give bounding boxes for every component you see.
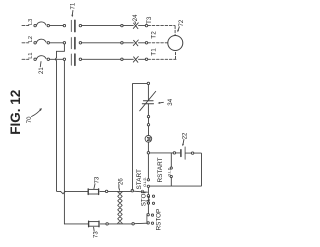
svg-text:34: 34	[167, 98, 174, 105]
wire: right control tap vertical (from L1)	[63, 61, 65, 224]
leader arrow for 72	[178, 27, 179, 31]
wire: upper rail to bus	[134, 191, 148, 192]
contactor contact 71 pole (L3)	[63, 20, 81, 31]
fuse 73a	[88, 189, 108, 195]
stop contact STOP	[147, 195, 149, 197]
contactor coil M	[145, 136, 152, 143]
leader arrow for 34	[160, 101, 164, 104]
node at battery rail junction	[147, 152, 149, 154]
svg-text:24: 24	[133, 14, 139, 21]
wire crossing jog over L1 tap	[61, 191, 66, 193]
node on upper rail	[131, 190, 133, 192]
leader arrow for 70	[32, 109, 42, 117]
node on lower rail	[132, 223, 134, 225]
wire: left control tap vertical (from L2)	[56, 61, 58, 191]
svg-text:O.L.D.: O.L.D.	[143, 177, 147, 187]
wire crossing jog over L1	[55, 58, 56, 61]
overload heater 24 (L3)	[121, 23, 148, 29]
leader arrow for 71	[71, 11, 74, 16]
wire: bus STOP to RSTOP	[147, 204, 149, 213]
circuit breaker 21 pole (L2)	[34, 39, 50, 44]
svg-text:70: 70	[27, 116, 33, 123]
fuse 73b	[89, 221, 109, 227]
svg-text:RSTART: RSTART	[157, 157, 164, 182]
wire: bus below capacitor	[147, 104, 149, 116]
terminal T2 dashed lead	[148, 42, 168, 44]
svg-text:RSTOP: RSTOP	[156, 209, 163, 231]
start contact START	[147, 179, 149, 181]
node at loop top right	[147, 82, 149, 84]
node right of battery	[191, 152, 193, 154]
leader for 24	[134, 22, 137, 24]
leader for upper 73	[94, 184, 95, 189]
wire: upper control rail	[108, 190, 131, 192]
terminal T3 dashed lead	[148, 25, 175, 27]
battery 22	[181, 147, 185, 159]
overload heater 24 (L2)	[121, 40, 148, 46]
leader for 21	[39, 62, 42, 67]
svg-text:M: M	[147, 136, 153, 141]
node at RSTART branch	[173, 152, 175, 154]
contactor contact 71 pole (L1)	[63, 54, 81, 65]
wire: bus below coil M	[147, 142, 149, 151]
svg-text:O.L.D.: O.L.D.	[167, 167, 171, 177]
motor 72	[168, 36, 183, 51]
svg-text:FIG. 12: FIG. 12	[8, 90, 23, 135]
svg-text:START: START	[136, 169, 143, 189]
remote stop contact RSTOP	[147, 214, 149, 216]
svg-text:T1: T1	[150, 48, 157, 56]
wire: lower rail to bus	[134, 222, 147, 225]
terminal T1 dashed lead	[148, 58, 176, 60]
wire to fuse 73a	[65, 190, 88, 192]
svg-text:72: 72	[179, 19, 185, 26]
svg-text:O.L.D.: O.L.D.	[147, 195, 151, 205]
wire: battery rail	[150, 152, 180, 154]
svg-text:21: 21	[39, 67, 45, 74]
wire: control loop top	[133, 82, 148, 85]
contactor contact 71 pole (L2)	[63, 38, 81, 49]
phase line L2	[22, 42, 145, 44]
svg-text:26: 26	[118, 178, 124, 185]
variable capacitor 34	[140, 91, 156, 110]
svg-text:73: 73	[95, 176, 101, 183]
wire: left control vertical (START side)	[132, 84, 134, 190]
svg-text:T3: T3	[146, 16, 153, 24]
wire: lower control rail	[108, 223, 132, 225]
svg-text:L1: L1	[28, 52, 34, 58]
svg-text:L3: L3	[28, 19, 34, 25]
svg-text:71: 71	[71, 2, 77, 9]
svg-text:L2: L2	[28, 36, 34, 42]
circuit breaker 21 pole (L1)	[34, 56, 50, 61]
wire: right side of remote loop	[150, 153, 202, 186]
phase line L1	[22, 58, 145, 60]
remote start contact RSTART	[170, 153, 172, 167]
wire: bus START to STOP	[147, 188, 149, 195]
leader arrow for 22	[182, 140, 185, 145]
wire: tap from L2 node down-step	[57, 44, 65, 58]
leader for 26	[118, 185, 121, 190]
svg-text:73: 73	[93, 231, 99, 238]
connector node pair on bus	[147, 115, 149, 117]
wire: corner to lower fuse rail	[64, 223, 88, 225]
svg-text:T2: T2	[150, 31, 157, 39]
svg-text:22: 22	[182, 132, 188, 139]
wire: bus from loop node down to capacitor 34	[147, 85, 149, 101]
overload heater 24 (L1)	[121, 57, 148, 63]
leader for lower 73	[93, 227, 96, 231]
wire from battery to right corner	[186, 152, 192, 154]
circuit breaker 21 pole (L3)	[34, 22, 50, 27]
transformer 26 winding	[118, 191, 123, 224]
wire: corner to fuse rail	[57, 190, 61, 193]
phase line L3	[22, 25, 145, 27]
wire: bus from node down to START contact	[147, 154, 149, 179]
